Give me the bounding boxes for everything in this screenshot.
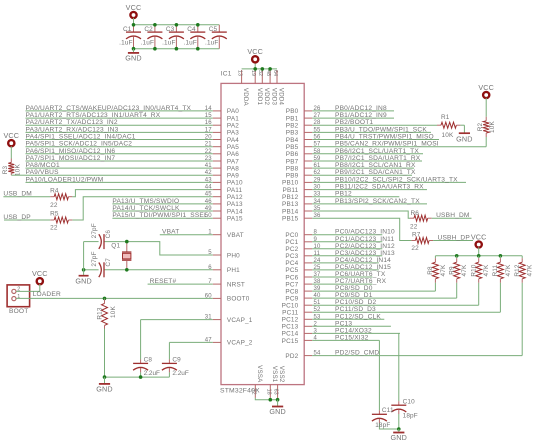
transistor Q1 crystal [111, 242, 131, 270]
wire R11 down to net [499, 283, 501, 312]
svg-text:11: 11 [314, 251, 321, 257]
resistor R2 10K vertical [477, 98, 496, 137]
node RESET# (pin 7 NRST) [148, 278, 213, 285]
svg-text:55: 55 [314, 127, 322, 133]
svg-text:R4: R4 [50, 187, 59, 194]
svg-text:C2: C2 [144, 26, 153, 33]
capacitor C3 .1uF [162, 25, 184, 49]
node PC15/XI32 (pin 4) [312, 334, 379, 341]
svg-text:54: 54 [314, 351, 322, 357]
svg-text:PA14: PA14 [227, 208, 243, 215]
svg-text:PA8/MCO1: PA8/MCO1 [26, 162, 60, 169]
capacitor C10 18pF on PC14/XO32 [391, 333, 418, 429]
svg-text:VDD1: VDD1 [256, 88, 263, 106]
svg-text:10: 10 [314, 244, 322, 250]
svg-text:2.2uF: 2.2uF [144, 370, 160, 377]
node VSS junctions [269, 398, 280, 402]
svg-text:PB2: PB2 [286, 123, 299, 130]
svg-text:PC7: PC7 [285, 281, 298, 288]
svg-text:PH1: PH1 [227, 267, 240, 274]
svg-text:PB7/I2C1_SDA/UART1_RX: PB7/I2C1_SDA/UART1_RX [335, 155, 421, 162]
svg-text:16: 16 [205, 120, 213, 126]
wire R13 to ground line [104, 329, 106, 378]
svg-text:R10: R10 [471, 264, 478, 277]
svg-text:GND: GND [125, 54, 142, 63]
svg-text:PA15: PA15 [227, 216, 243, 223]
node PB15 (pin 36) to R7 [312, 213, 411, 240]
wire PH1 OSC_OUT net (pin 6) [84, 265, 213, 271]
wire PC14 over to C10 column [399, 332, 400, 334]
svg-text:22: 22 [410, 224, 418, 231]
svg-text:29: 29 [314, 177, 322, 183]
svg-text:PA13: PA13 [227, 201, 243, 208]
svg-text:41: 41 [205, 163, 213, 169]
svg-text:33: 33 [314, 192, 322, 198]
svg-text:PA1/UART2_RTS/ADC123_IN1/UART4: PA1/UART2_RTS/ADC123_IN1/UART4_RX [26, 112, 161, 119]
svg-text:PB5/CAN2_RX/PWM/SPI1_MOSI: PB5/CAN2_RX/PWM/SPI1_MOSI [335, 141, 439, 148]
node PC7/UART6_RX (pin 38) [312, 278, 386, 285]
resistor R7 22 [411, 232, 433, 253]
IC1 left pin stubs [213, 111, 221, 343]
connector BOOT header [7, 285, 30, 315]
svg-text:USBH_DP: USBH_DP [438, 234, 471, 241]
ground below decoupling caps [125, 49, 142, 63]
svg-text:PC1: PC1 [285, 239, 298, 246]
node PC12/SD_CLK (pin 53) [312, 313, 384, 320]
wire bottom GND rail [134, 48, 220, 50]
svg-text:R2: R2 [477, 122, 484, 131]
svg-text:PC8: PC8 [285, 288, 298, 295]
svg-text:PB11/I2C2_SDA/UART3_RX: PB11/I2C2_SDA/UART3_RX [335, 184, 424, 191]
power VCC above decoupling caps [126, 3, 142, 18]
svg-text:10K: 10K [489, 120, 496, 132]
svg-text:PB9: PB9 [286, 173, 299, 180]
svg-text:VCC: VCC [32, 269, 48, 278]
svg-text:GND: GND [75, 277, 92, 286]
svg-text:PC9/SD_D1: PC9/SD_D1 [335, 292, 373, 299]
svg-text:60: 60 [205, 293, 213, 299]
svg-text:PC10/SD_D2: PC10/SD_D2 [335, 299, 377, 306]
svg-text:PB2/BOOT1: PB2/BOOT1 [335, 119, 373, 126]
svg-text:62: 62 [314, 170, 322, 176]
node PB9/I2C1_SDA/CAN1_TX (pin 62) [312, 169, 416, 176]
svg-text:PC11: PC11 [282, 310, 298, 317]
svg-text:PB0: PB0 [286, 108, 299, 115]
svg-text:GND: GND [96, 385, 113, 394]
svg-text:VDDA: VDDA [242, 88, 249, 107]
power VCC for BOOT header [32, 269, 48, 284]
svg-text:1: 1 [208, 230, 212, 236]
svg-text:C1: C1 [123, 26, 132, 33]
capacitor C11 18pF on PC15/XI32 [372, 340, 399, 429]
svg-text:PA6/SPI1_MISO/ADC12_IN6: PA6/SPI1_MISO/ADC12_IN6 [26, 148, 116, 155]
node PC3/ADC123_IN13 (pin 11) [312, 250, 395, 257]
svg-text:C4: C4 [187, 26, 196, 33]
wire BOOT pin2 to VCC [16, 284, 40, 291]
svg-text:47K: 47K [527, 264, 534, 276]
svg-text:38: 38 [314, 279, 322, 285]
svg-text:12: 12 [250, 389, 256, 395]
svg-text:PC15: PC15 [282, 338, 299, 345]
svg-text:PB14: PB14 [282, 208, 299, 215]
svg-text:PA9: PA9 [227, 173, 239, 180]
resistor R6 22 [410, 210, 432, 231]
resistor R11 47K [492, 256, 512, 283]
svg-text:PC3/ADC123_IN13: PC3/ADC123_IN13 [335, 250, 395, 257]
svg-text:USB_DP: USB_DP [3, 214, 31, 221]
svg-text:GND: GND [391, 433, 408, 442]
capacitor C1 .1uF [119, 25, 141, 49]
wire R8 down to net [434, 283, 436, 291]
ground for R1 [456, 125, 473, 143]
svg-text:PB13/SPI2_SCK/CAN2_TX: PB13/SPI2_SCK/CAN2_TX [335, 198, 420, 205]
svg-text:BOOT0: BOOT0 [227, 296, 250, 303]
node PA3/UART2_RX/ADC123_IN3 (pin 17) [26, 126, 213, 133]
node PB8/I2C1_SCL/CAN1_RX (pin 61) [312, 162, 416, 169]
IC1 bottom ground pins VSSA VSS1 VSS2 (pins 12,18,63) [250, 365, 285, 398]
wire R4 to PA11 pin 44 [72, 185, 212, 197]
svg-text:PC0: PC0 [285, 232, 298, 239]
svg-text:PB4/U_TRST/PWM/SPI1_MISO: PB4/U_TRST/PWM/SPI1_MISO [335, 134, 434, 141]
svg-text:34: 34 [314, 199, 322, 205]
resistor R3 10K vertical [2, 146, 22, 176]
svg-text:VCAP_2: VCAP_2 [227, 340, 253, 347]
svg-text:IC1: IC1 [221, 70, 232, 77]
svg-text:PC12: PC12 [282, 317, 299, 324]
svg-text:PB1: PB1 [286, 115, 299, 122]
resistor R1 10K [437, 114, 460, 139]
svg-text:PA1: PA1 [227, 115, 239, 122]
svg-text:PB5: PB5 [286, 144, 299, 151]
svg-text:PC14/XO32: PC14/XO32 [335, 327, 372, 334]
svg-text:PB3: PB3 [286, 130, 299, 137]
svg-text:10K: 10K [15, 163, 22, 175]
svg-text:R11: R11 [492, 264, 499, 276]
svg-text:47: 47 [205, 337, 213, 343]
node bottom rail junctions [132, 47, 200, 51]
capacitor C8 2.2uF [133, 320, 160, 378]
svg-text:47K: 47K [461, 264, 468, 276]
svg-text:.1uF: .1uF [141, 40, 155, 47]
ground below VSS pins [269, 400, 286, 416]
svg-text:25: 25 [314, 265, 322, 271]
svg-text:PB0/ADC12_IN8: PB0/ADC12_IN8 [335, 105, 387, 112]
svg-text:22: 22 [50, 202, 58, 209]
svg-text:4: 4 [314, 335, 318, 341]
svg-text:C8: C8 [144, 356, 153, 363]
svg-text:PB15: PB15 [282, 216, 299, 223]
IC1 internal right pin names [282, 108, 299, 360]
svg-text:VCC: VCC [471, 232, 487, 241]
svg-text:VCC: VCC [247, 47, 263, 56]
node PC14/XO32 (pin 3) [312, 327, 400, 334]
svg-text:VCC: VCC [3, 131, 19, 140]
node crystal junctions [82, 240, 129, 272]
svg-text:PA5/SPI1_SCK/ADC12_IN5/DAC2: PA5/SPI1_SCK/ADC12_IN5/DAC2 [26, 141, 133, 148]
node junction BOOT0/R13 [103, 297, 107, 301]
svg-text:C9: C9 [172, 356, 181, 363]
svg-text:PA10/LOADER1U2/PWM: PA10/LOADER1U2/PWM [26, 176, 104, 183]
svg-text:PB8/I2C1_SCL/CAN1_RX: PB8/I2C1_SCL/CAN1_RX [335, 162, 416, 169]
node ground line junctions [103, 375, 143, 379]
svg-text:VSS1: VSS1 [271, 366, 278, 383]
svg-text:R7: R7 [412, 232, 421, 239]
node USBH_DP net label [433, 234, 473, 241]
svg-text:37: 37 [314, 272, 322, 278]
wire R12 down to net [521, 283, 523, 356]
svg-text:C10: C10 [403, 398, 416, 405]
node PC0/ADC123_IN10 (pin 8) [312, 229, 395, 236]
capacitor C6 27pF [91, 223, 112, 249]
power VCC for R3 [3, 131, 19, 146]
svg-text:C3: C3 [166, 26, 175, 33]
svg-text:PA15/U_TDI/PWM/SPI1_SSEL: PA15/U_TDI/PWM/SPI1_SSEL [112, 212, 208, 219]
node PA15/U_TDI/PWM/SPI1_SSEL (pin 50) [112, 212, 212, 219]
svg-text:PC4: PC4 [285, 260, 298, 267]
svg-text:VDD2: VDD2 [263, 88, 270, 106]
svg-text:8: 8 [314, 230, 318, 236]
svg-text:RESET#: RESET# [150, 278, 177, 285]
power VCC for SD pull-ups [471, 232, 487, 247]
ground for crystal caps [75, 242, 92, 286]
svg-text:USB_DM: USB_DM [3, 191, 32, 198]
svg-text:PC10: PC10 [282, 303, 299, 310]
resistor R5 22 [50, 210, 72, 231]
svg-text:PC6: PC6 [285, 274, 298, 281]
svg-text:VCC: VCC [478, 83, 494, 92]
svg-text:58: 58 [314, 149, 322, 155]
svg-text:R12: R12 [514, 264, 521, 277]
wire ground line under R13/C8/C9 [105, 376, 170, 378]
node PB2/BOOT1 (pin 28) [312, 119, 437, 126]
svg-text:PA0/UART2_CTS/WAKEUP/ADC123_IN: PA0/UART2_CTS/WAKEUP/ADC123_IN0/UART4_TX [26, 105, 192, 112]
svg-text:18pF: 18pF [375, 422, 390, 429]
svg-text:27pF: 27pF [91, 223, 98, 238]
svg-text:57: 57 [314, 142, 322, 148]
svg-text:R5: R5 [50, 210, 59, 217]
svg-text:PA3/UART2_RX/ADC123_IN3: PA3/UART2_RX/ADC123_IN3 [26, 126, 119, 133]
svg-text:18: 18 [265, 389, 271, 395]
node USB_DM net label [3, 191, 50, 198]
svg-text:23: 23 [205, 156, 213, 162]
svg-text:PB9/I2C1_SDA/CAN1_TX: PB9/I2C1_SDA/CAN1_TX [335, 169, 416, 176]
svg-text:C5: C5 [209, 26, 218, 33]
svg-text:3: 3 [314, 328, 318, 334]
node PA2/UART2_TX/ADC123_IN2 (pin 16) [26, 119, 213, 126]
svg-text:36: 36 [314, 213, 322, 219]
IC1 top power pins VDDA VDD1-VDD4 (pins 13,19,32,48,64) [236, 70, 284, 107]
wire PH0 OSC_IN net (pin 5) [84, 242, 213, 256]
svg-text:45: 45 [205, 192, 213, 198]
node PA14/U_TCK/SWCLK (pin 49) [112, 205, 212, 212]
node PB12 (pin 33) [312, 191, 399, 198]
svg-text:PA4: PA4 [227, 137, 239, 144]
node PB4/U_TRST/PWM/SPI1_MISO (pin 56) [312, 134, 439, 141]
svg-text:R1: R1 [441, 114, 450, 121]
svg-text:51: 51 [314, 300, 322, 306]
svg-text:PA7/SPI1_MOSI/ADC12_IN7: PA7/SPI1_MOSI/ADC12_IN7 [26, 155, 116, 162]
svg-text:PB3/U_TDO/PWM/SPI1_SCK: PB3/U_TDO/PWM/SPI1_SCK [335, 126, 427, 133]
svg-text:PB10/I2C2_SCL/SPI2_SCK/UART3_T: PB10/I2C2_SCL/SPI2_SCK/UART3_TX [335, 176, 458, 183]
svg-text:44: 44 [205, 185, 213, 191]
node LOADER net to BOOT0 (pin 60) [16, 291, 213, 299]
svg-text:53: 53 [314, 314, 322, 320]
wire R9 down to net [456, 283, 458, 298]
wire R1 to ground [460, 124, 464, 126]
svg-text:PA12: PA12 [227, 194, 243, 201]
node PC6/UART6_TX (pin 37) [312, 271, 386, 278]
svg-text:5: 5 [208, 250, 212, 256]
svg-text:PC9: PC9 [285, 295, 298, 302]
svg-text:PC7/UART6_RX: PC7/UART6_RX [335, 278, 387, 285]
resistor R13 10K pulldown [96, 298, 117, 329]
svg-text:GND: GND [269, 407, 286, 416]
svg-text:15: 15 [205, 113, 213, 119]
node PC4/ADC12_IN14 (pin 24) [312, 257, 391, 264]
svg-text:14: 14 [205, 106, 213, 112]
svg-text:50: 50 [205, 213, 213, 219]
svg-text:PA14/U_TCK/SWCLK: PA14/U_TCK/SWCLK [112, 205, 180, 212]
resistor R8 47K [427, 256, 447, 283]
svg-text:VSS2: VSS2 [278, 366, 285, 383]
svg-text:VSSA: VSSA [256, 365, 263, 383]
node PC9/SD_D1 (pin 40) [312, 292, 457, 299]
svg-text:R8: R8 [427, 266, 434, 275]
node PC11/SD_D3 (pin 52) [312, 306, 500, 313]
svg-text:31: 31 [205, 315, 213, 321]
svg-text:52: 52 [314, 307, 322, 313]
wire R5 to PA12 pin 45 [72, 192, 212, 220]
svg-text:PA9/VBUS: PA9/VBUS [26, 169, 60, 176]
svg-text:22: 22 [411, 245, 419, 252]
svg-text:PC4/ADC12_IN14: PC4/ADC12_IN14 [335, 257, 391, 264]
svg-text:VCAP_1: VCAP_1 [227, 317, 253, 324]
svg-text:.1uF: .1uF [205, 40, 219, 47]
svg-text:32: 32 [257, 70, 263, 76]
svg-text:PA0: PA0 [227, 108, 239, 115]
node PD2/SD_CMD (pin 54) [312, 350, 522, 357]
svg-text:PB1/ADC12_IN9: PB1/ADC12_IN9 [335, 112, 387, 119]
svg-text:47K: 47K [440, 264, 447, 276]
node PA13/U_TMS/SWDIO (pin 46) [112, 198, 212, 205]
node PC8/SD_D0 (pin 39) [312, 285, 435, 292]
node PA6/SPI1_MISO/ADC12_IN6 (pin 22) [26, 148, 213, 155]
svg-text:.1uF: .1uF [162, 40, 176, 47]
svg-text:7: 7 [208, 279, 212, 285]
ground below R13 [96, 377, 113, 393]
svg-text:C11: C11 [382, 407, 394, 414]
svg-text:PB7: PB7 [286, 158, 299, 165]
svg-text:10K: 10K [110, 305, 117, 317]
node PB7/I2C1_SDA/UART1_RX (pin 59) [312, 155, 422, 162]
wire R2 to PB5 net [485, 137, 487, 147]
wire top VCC rail [134, 24, 220, 26]
node PB0/ADC12_IN8 (pin 26) [312, 105, 394, 112]
svg-text:19: 19 [250, 70, 256, 76]
svg-text:64: 64 [272, 70, 278, 76]
svg-text:47K: 47K [505, 264, 512, 276]
svg-text:C7: C7 [105, 258, 112, 267]
ground below C10/C11 [391, 429, 408, 442]
node VBAT (pin 1) [160, 229, 213, 236]
svg-text:PC2: PC2 [285, 246, 298, 253]
svg-text:2.2uF: 2.2uF [172, 370, 188, 377]
node PB11/I2C2_SDA/UART3_RX (pin 30) [312, 184, 427, 191]
svg-text:PC5/ADC12_IN15: PC5/ADC12_IN15 [335, 264, 391, 271]
IC1 internal left pin names [227, 108, 253, 347]
node USB_DP net label [3, 214, 50, 221]
svg-text:59: 59 [314, 156, 322, 162]
svg-text:PA2/UART2_TX/ADC123_IN2: PA2/UART2_TX/ADC123_IN2 [26, 119, 118, 126]
wire VCC stem to top rail [133, 18, 135, 25]
svg-text:28: 28 [314, 120, 322, 126]
wire R10 down to net [478, 283, 480, 305]
svg-text:10K: 10K [442, 132, 454, 139]
svg-text:22: 22 [205, 149, 213, 155]
svg-text:PB4: PB4 [286, 137, 299, 144]
svg-text:PC13: PC13 [335, 320, 352, 327]
svg-text:PA7: PA7 [227, 158, 239, 165]
resistor R12 47K [514, 256, 534, 283]
capacitor C7 27pF [91, 251, 112, 277]
svg-text:42: 42 [205, 170, 213, 176]
svg-text:PA4/SPI1_SSEL/ADC12_IN4/DAC1: PA4/SPI1_SSEL/ADC12_IN4/DAC1 [26, 134, 136, 141]
svg-text:VDD4: VDD4 [278, 88, 285, 106]
svg-text:LOADER: LOADER [33, 291, 61, 298]
svg-text:C6: C6 [105, 230, 112, 239]
svg-text:27pF: 27pF [91, 251, 98, 266]
svg-text:PB8: PB8 [286, 165, 299, 172]
svg-text:PC13: PC13 [282, 324, 299, 331]
svg-text:PB12: PB12 [282, 194, 299, 201]
node PB5/CAN2_RX/PWM/SPI1_MOSI (pin 57) [312, 141, 486, 148]
svg-text:43: 43 [205, 177, 213, 183]
svg-text:R13: R13 [96, 307, 103, 320]
resistor R10 47K [471, 256, 491, 283]
node C10/C11 ground junction [397, 427, 401, 431]
node pull-up rail junctions [455, 254, 502, 258]
svg-text:35: 35 [314, 206, 322, 212]
svg-text:18pF: 18pF [403, 413, 418, 420]
svg-text:Q1: Q1 [111, 243, 120, 250]
capacitor C2 .1uF [141, 25, 163, 49]
node PA10/LOADER1U2/PWM (pin 43) [26, 176, 213, 183]
wire VSS pins to ground [255, 398, 277, 400]
node VCAP_1 (pin 31) [141, 315, 213, 321]
svg-text:2: 2 [314, 321, 318, 327]
node PC13 (pin 2) [312, 320, 391, 327]
svg-text:PC8/SD_D0: PC8/SD_D0 [335, 285, 373, 292]
node PA0/UART2_CTS/WAKEUP/ADC123_IN0/UART4_TX (pin 14) [26, 105, 213, 112]
svg-text:R3: R3 [2, 165, 9, 174]
svg-text:48: 48 [265, 70, 271, 76]
node PA7/SPI1_MOSI/ADC12_IN7 (pin 23) [26, 155, 213, 162]
svg-text:PA5: PA5 [227, 144, 239, 151]
svg-text:PC12/SD_CLK: PC12/SD_CLK [335, 313, 381, 320]
svg-text:30: 30 [314, 185, 322, 191]
node VDD rail junctions [253, 67, 272, 71]
node PC1/ADC123_IN11 (pin 9) [312, 236, 394, 243]
svg-text:PB10: PB10 [282, 180, 299, 187]
resistor R4 22 [50, 187, 72, 209]
capacitor C9 2.2uF [162, 342, 189, 377]
power VCC above IC1 [247, 47, 263, 62]
svg-text:.1uF: .1uF [183, 40, 197, 47]
svg-text:PB6/I2C1_SCL/UART1_TX: PB6/I2C1_SCL/UART1_TX [335, 148, 419, 155]
svg-text:6: 6 [208, 265, 212, 271]
svg-text:17: 17 [205, 127, 213, 133]
svg-text:PC2/ADC123_IN12: PC2/ADC123_IN12 [335, 243, 395, 250]
